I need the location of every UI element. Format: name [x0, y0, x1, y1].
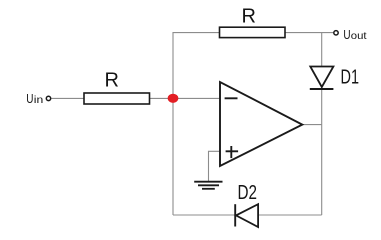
svg-text:out: out [351, 30, 367, 42]
svg-text:R: R [105, 70, 119, 92]
svg-text:D1: D1 [341, 67, 360, 89]
svg-text:R: R [242, 5, 256, 27]
svg-text:in: in [34, 94, 44, 106]
svg-text:U: U [343, 27, 350, 42]
svg-text:D2: D2 [238, 182, 258, 204]
svg-text:U: U [26, 91, 33, 106]
